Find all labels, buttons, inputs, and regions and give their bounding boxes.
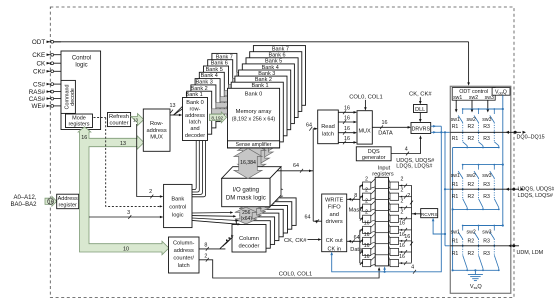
read latch to MUX wires 16x4 bbox=[338, 111, 356, 113]
bank 3 row latch box bbox=[195, 79, 220, 122]
svg-text:row-: row- bbox=[190, 107, 201, 113]
svg-text:16: 16 bbox=[48, 199, 54, 205]
svg-text:sw1: sw1 bbox=[451, 230, 460, 236]
svg-text:RAS#: RAS# bbox=[29, 89, 46, 96]
svg-text:16: 16 bbox=[344, 136, 350, 142]
bank 4 column select arrow bbox=[252, 192, 274, 209]
control logic U1 bbox=[61, 51, 101, 130]
svg-text:13: 13 bbox=[170, 103, 176, 109]
I/O gating DM mask logic bbox=[222, 167, 281, 179]
svg-text:DLL: DLL bbox=[415, 107, 425, 113]
svg-text:16: 16 bbox=[399, 254, 405, 260]
svg-text:R3: R3 bbox=[483, 182, 490, 188]
ODT g1 switch sw1 bbox=[462, 109, 464, 114]
svg-text:10: 10 bbox=[123, 247, 129, 253]
svg-text:counter: counter bbox=[110, 121, 129, 127]
svg-text:64: 64 bbox=[293, 163, 299, 169]
bank 6 column decoder box bbox=[258, 202, 292, 230]
svg-text:2: 2 bbox=[401, 210, 404, 216]
address bus green trunk bbox=[78, 127, 169, 255]
svg-text:16: 16 bbox=[364, 254, 370, 260]
bank control to row latch wires bbox=[192, 141, 196, 190]
bank 2 row address path arrow bbox=[216, 101, 235, 110]
svg-text:4: 4 bbox=[405, 147, 408, 153]
svg-text:and: and bbox=[190, 126, 199, 132]
bank 6 sense amp data arrow bbox=[256, 112, 284, 142]
svg-text:16: 16 bbox=[344, 106, 350, 112]
ODT g2 resistor R3 lower bbox=[493, 190, 495, 199]
wire ck to DLL bbox=[419, 97, 421, 103]
ODT g1 switch sw2 bbox=[478, 109, 480, 114]
svg-text:R1: R1 bbox=[452, 182, 459, 188]
svg-text:R2: R2 bbox=[468, 136, 475, 142]
ODT g1 switch sw3 bbox=[493, 109, 495, 114]
ODT g3 resistor R2 lower bbox=[478, 246, 480, 255]
svg-text:sw1: sw1 bbox=[453, 95, 462, 101]
bank 1 memory array box bbox=[231, 82, 283, 142]
bank 1 column select arrow bbox=[239, 203, 261, 220]
svg-text:16,384: 16,384 bbox=[240, 160, 256, 166]
wire strobe to RCVRS bbox=[433, 219, 445, 234]
wire 64 to read latch bbox=[313, 128, 316, 130]
svg-text:sw3: sw3 bbox=[482, 230, 491, 236]
bank 2 sense amp data arrow bbox=[241, 136, 269, 166]
svg-text:16: 16 bbox=[399, 243, 405, 249]
bank 7 memory array box bbox=[253, 46, 305, 106]
bank 2 column select arrow bbox=[243, 200, 265, 217]
svg-text:2: 2 bbox=[401, 188, 404, 194]
sense amplifier bbox=[228, 141, 280, 148]
DQS generator bbox=[356, 147, 391, 161]
svg-text:LDQS, LDQS#: LDQS, LDQS# bbox=[518, 193, 553, 199]
svg-text:R3: R3 bbox=[483, 239, 490, 245]
blue trunk B bbox=[444, 132, 446, 246]
row address MUX bbox=[143, 109, 170, 151]
wire dashed to bank control bbox=[106, 118, 162, 207]
svg-text:8,192: 8,192 bbox=[211, 116, 223, 121]
svg-text:CK: CK bbox=[36, 60, 46, 67]
svg-text:sw2: sw2 bbox=[469, 95, 478, 101]
svg-text:CAS#: CAS# bbox=[29, 96, 46, 103]
wire to DM pads bbox=[445, 245, 450, 247]
svg-text:MUX: MUX bbox=[358, 129, 371, 135]
write FIFO and drivers bbox=[322, 194, 347, 252]
bank 5 row latch box bbox=[204, 66, 229, 109]
ODT group 2 VssQ rail bbox=[453, 208, 499, 210]
svg-text:CKE: CKE bbox=[32, 52, 45, 59]
svg-text:COL0, COL1: COL0, COL1 bbox=[279, 271, 313, 277]
svg-text:R2: R2 bbox=[468, 194, 475, 200]
drivers DRVRS bbox=[411, 123, 431, 134]
bank 3 column select arrow bbox=[248, 196, 270, 213]
bank 4 memory array box bbox=[242, 64, 294, 124]
ODT control header bbox=[452, 88, 495, 101]
sense amp data path arrow 16384 bbox=[234, 148, 262, 178]
svg-text:R1: R1 bbox=[452, 136, 459, 142]
bank 7 row latch box bbox=[212, 53, 237, 96]
ODT g3 resistor R3 upper bbox=[493, 239, 495, 245]
VssQ ground bbox=[474, 270, 476, 274]
wire ck to write fifo bbox=[308, 239, 321, 241]
ODT g3 switch lower 1 bbox=[463, 255, 468, 268]
svg-text:counter/: counter/ bbox=[173, 255, 194, 261]
read write data trunk 64 bbox=[312, 129, 314, 222]
svg-text:R1: R1 bbox=[452, 124, 459, 130]
svg-text:R3: R3 bbox=[483, 136, 490, 142]
svg-text:R2: R2 bbox=[468, 239, 475, 245]
ODT pad network box bbox=[450, 86, 511, 293]
ODT group 1 VddQ rail bbox=[463, 108, 503, 110]
svg-text:R1: R1 bbox=[452, 194, 459, 200]
svg-text:decoder: decoder bbox=[185, 133, 205, 139]
svg-text:Control: Control bbox=[72, 56, 91, 62]
bank 3 memory array box bbox=[239, 70, 291, 130]
svg-text:CS#: CS# bbox=[33, 81, 46, 88]
ODT g1 switch lower 2 bbox=[479, 142, 484, 146]
mode registers bbox=[66, 114, 93, 128]
svg-text:sw3: sw3 bbox=[482, 117, 491, 123]
DLL bbox=[414, 105, 428, 113]
wire 3 address to bank control bbox=[89, 216, 162, 218]
bank 5 row address path arrow bbox=[229, 83, 247, 92]
svg-text:R3: R3 bbox=[483, 124, 490, 130]
svg-text:address: address bbox=[185, 113, 205, 119]
svg-text:Refresh: Refresh bbox=[109, 114, 129, 120]
svg-text:(8,192 x 256 x 64): (8,192 x 256 x 64) bbox=[232, 117, 276, 123]
VssQ left rail bbox=[452, 148, 454, 271]
svg-text:DM mask logic: DM mask logic bbox=[226, 194, 266, 201]
svg-text:Bank 0: Bank 0 bbox=[245, 91, 262, 97]
svg-text:sw3: sw3 bbox=[485, 95, 494, 101]
svg-text:FIFO: FIFO bbox=[328, 205, 342, 211]
svg-text:address: address bbox=[146, 128, 166, 134]
wire col to mux bbox=[364, 100, 366, 110]
svg-text:decoder: decoder bbox=[239, 244, 260, 250]
svg-text:RCVRS: RCVRS bbox=[421, 212, 438, 218]
svg-text:R3: R3 bbox=[483, 251, 490, 257]
ODT g3 switch lower 3 bbox=[494, 255, 499, 268]
ODT g2 switch lower 3 bbox=[494, 199, 499, 208]
wire DQS 4 to DRVRS bbox=[391, 137, 420, 154]
svg-text:64: 64 bbox=[305, 215, 311, 221]
svg-text:2: 2 bbox=[365, 199, 368, 205]
ODT group 3 VddQ rail bbox=[463, 225, 503, 227]
wire strobe to input registers bbox=[384, 268, 386, 272]
ODT g3 resistor R3 lower bbox=[493, 246, 495, 255]
row mux fan to bank stack bbox=[174, 106, 187, 115]
wire mode registers to bank control (dashed) bbox=[94, 117, 106, 119]
mask trunk 8 bbox=[359, 186, 361, 219]
input reg right cell 3 bbox=[390, 204, 399, 211]
input reg left cell 7 bbox=[363, 248, 371, 255]
bank 0 row address path arrow 8192 bbox=[210, 112, 227, 123]
svg-text:Column: Column bbox=[239, 236, 259, 242]
ODT g3 resistor R1 lower bbox=[462, 246, 464, 255]
wire 64 write fifo to trunk bbox=[313, 220, 322, 222]
ODT g2 switch sw3 bbox=[493, 165, 495, 170]
svg-text:decode: decode bbox=[70, 88, 76, 106]
bank 5 memory array box bbox=[246, 58, 298, 118]
bank control logic bbox=[164, 184, 192, 227]
svg-text:CK in: CK in bbox=[327, 247, 340, 253]
svg-text:LDQS, LDQS#: LDQS, LDQS# bbox=[396, 163, 433, 169]
svg-text:sw1: sw1 bbox=[451, 173, 460, 179]
svg-text:64: 64 bbox=[306, 122, 312, 128]
svg-text:sw1: sw1 bbox=[451, 117, 460, 123]
svg-text:CK#: CK# bbox=[33, 69, 46, 76]
wire 8 to column decoder bbox=[199, 248, 225, 250]
svg-text:and: and bbox=[329, 212, 339, 218]
ODT g3 switch sw2 bbox=[478, 226, 480, 231]
ODT g1 switch lower 3 bbox=[494, 142, 499, 146]
wire 2 address to bank control bbox=[137, 124, 163, 197]
svg-text:Data: Data bbox=[350, 247, 363, 253]
DQS pad line bbox=[450, 188, 519, 190]
svg-text:Read: Read bbox=[321, 124, 335, 130]
svg-text:R1: R1 bbox=[452, 251, 459, 257]
input reg left cell 5 bbox=[363, 226, 371, 233]
wire row mux to bank0 latch 13 bbox=[170, 114, 181, 116]
svg-text:Sense amplifier: Sense amplifier bbox=[236, 142, 272, 148]
input reg left cell 1 bbox=[363, 182, 371, 189]
ODT g1 resistor R2 upper bbox=[478, 123, 480, 132]
wire 64 io gating bbox=[277, 170, 313, 172]
data trunk 64 bbox=[359, 230, 361, 263]
svg-text:UDM, LDM: UDM, LDM bbox=[517, 250, 544, 256]
svg-text:R2: R2 bbox=[468, 124, 475, 130]
wire ODT to ODT control bbox=[54, 41, 469, 43]
ODT g3 resistor R1 upper bbox=[462, 239, 464, 245]
svg-text:16: 16 bbox=[404, 234, 410, 240]
bank 7 sense amp data arrow bbox=[260, 106, 288, 136]
svg-text:13: 13 bbox=[133, 117, 138, 122]
svg-text:Column-: Column- bbox=[173, 241, 195, 247]
svg-text:MUX: MUX bbox=[150, 135, 163, 141]
svg-text:latch: latch bbox=[322, 131, 334, 137]
svg-text:CK, CK#: CK, CK# bbox=[409, 91, 432, 97]
input reg right cell 7 bbox=[390, 248, 399, 255]
svg-text:16: 16 bbox=[364, 243, 370, 249]
svg-text:2: 2 bbox=[149, 189, 152, 195]
svg-text:16: 16 bbox=[364, 221, 370, 227]
svg-text:sw2: sw2 bbox=[467, 173, 476, 179]
bank 5 sense amp data arrow bbox=[253, 118, 281, 148]
svg-text:Address: Address bbox=[58, 196, 78, 202]
svg-text:16: 16 bbox=[399, 221, 405, 227]
svg-text:R3: R3 bbox=[483, 194, 490, 200]
wire DATA 16 bbox=[372, 126, 410, 128]
bank 3 sense amp data arrow bbox=[245, 130, 273, 160]
svg-text:A0–A12,: A0–A12, bbox=[13, 195, 36, 201]
wire DRVRS to pads blue upper bbox=[431, 125, 442, 127]
ODT g3 switch sw3 bbox=[493, 226, 495, 231]
svg-text:R1: R1 bbox=[452, 239, 459, 245]
bank control to column decoder wires bbox=[192, 212, 232, 215]
svg-text:sw2: sw2 bbox=[467, 117, 476, 123]
command decode bbox=[61, 80, 75, 113]
ODT g2 resistor R1 lower bbox=[462, 190, 464, 199]
svg-text:3: 3 bbox=[127, 210, 130, 216]
bank 0 row address latch and decoder bbox=[183, 98, 208, 141]
ODT g3 switch lower 2 bbox=[479, 255, 484, 268]
svg-text:R2: R2 bbox=[468, 182, 475, 188]
svg-text:registers: registers bbox=[372, 171, 394, 177]
bank 1 sense amp data arrow bbox=[238, 142, 266, 172]
bank 3 column decoder box bbox=[245, 213, 279, 241]
bank 4 row address path arrow bbox=[224, 89, 242, 98]
svg-text:latch: latch bbox=[189, 120, 201, 126]
svg-text:DQS: DQS bbox=[368, 149, 380, 155]
svg-text:8: 8 bbox=[204, 243, 207, 249]
ODT g2 switch lower 1 bbox=[463, 199, 468, 208]
input reg left cell 6 bbox=[363, 237, 371, 244]
svg-text:Memory array: Memory array bbox=[236, 109, 272, 115]
svg-text:(x64): (x64) bbox=[241, 216, 253, 222]
bank 7 column decoder box bbox=[262, 198, 296, 226]
ODT g2 resistor R3 upper bbox=[493, 178, 495, 189]
svg-text:8: 8 bbox=[354, 193, 357, 199]
ODT g1 switch lower 1 bbox=[463, 142, 468, 146]
svg-text:2: 2 bbox=[365, 176, 368, 182]
input reg right cell 4 bbox=[390, 215, 399, 222]
ODT group 2 VddQ rail bbox=[463, 164, 503, 166]
bank 6 row address path arrow bbox=[233, 77, 250, 86]
ODT g2 resistor R1 upper bbox=[462, 178, 464, 189]
address register bbox=[57, 194, 79, 209]
svg-text:WRITE: WRITE bbox=[325, 198, 344, 204]
ODT g1 resistor R3 upper bbox=[493, 123, 495, 132]
bank 3 row address path arrow bbox=[220, 95, 239, 104]
svg-text:Mask: Mask bbox=[349, 208, 363, 214]
input reg left cell 2 bbox=[363, 193, 371, 200]
input reg left cell 4 bbox=[363, 215, 371, 222]
VddQ rail bbox=[502, 95, 504, 225]
bank 5 column decoder box bbox=[254, 206, 288, 234]
svg-text:UDQS, UDQS#: UDQS, UDQS# bbox=[518, 187, 554, 193]
input reg right cell 6 bbox=[390, 237, 399, 244]
svg-text:I/O gating: I/O gating bbox=[233, 186, 259, 193]
svg-text:WE#: WE# bbox=[32, 103, 46, 110]
bank 6 memory array box bbox=[250, 52, 302, 112]
ODT group 1 VssQ rail bbox=[453, 147, 499, 149]
svg-text:Bank 0: Bank 0 bbox=[186, 100, 203, 106]
svg-text:16: 16 bbox=[344, 115, 350, 121]
input reg right cell 1 bbox=[390, 182, 399, 189]
wire 2 COL0 COL1 bbox=[199, 260, 379, 278]
bank 0 column decoder bbox=[232, 225, 266, 253]
svg-text:latch: latch bbox=[178, 263, 190, 269]
wire DRVRS to DQ pad blue lower bbox=[431, 131, 451, 133]
bank 1 row latch box bbox=[187, 91, 212, 134]
svg-text:Mode: Mode bbox=[72, 115, 86, 121]
svg-text:logic: logic bbox=[172, 212, 184, 218]
svg-text:drivers: drivers bbox=[326, 219, 343, 225]
svg-text:2: 2 bbox=[204, 254, 207, 260]
ODT control arrows bbox=[455, 100, 457, 111]
column address counter latch bbox=[169, 237, 200, 273]
ODT g1 resistor R2 lower bbox=[478, 133, 480, 142]
bank 2 row latch box bbox=[191, 85, 216, 128]
svg-text:16: 16 bbox=[81, 135, 87, 141]
bank 4 column decoder box bbox=[249, 209, 283, 237]
DQ pad line bbox=[450, 131, 521, 133]
ODT g1 resistor R3 lower bbox=[493, 133, 495, 142]
input reg left cell 8 bbox=[363, 260, 371, 267]
bank 6 column select arrow bbox=[261, 184, 283, 201]
svg-text:2: 2 bbox=[365, 188, 368, 194]
ODT g1 resistor R1 lower bbox=[462, 133, 464, 142]
bank 0 memory array bbox=[228, 88, 280, 148]
svg-text:CK, CK#: CK, CK# bbox=[284, 238, 307, 244]
svg-text:sw2: sw2 bbox=[467, 230, 476, 236]
svg-text:DQ0–DQ15: DQ0–DQ15 bbox=[517, 135, 545, 141]
svg-text:sw3: sw3 bbox=[482, 173, 491, 179]
input reg right cell 2 bbox=[390, 193, 399, 200]
svg-text:COL0, COL1: COL0, COL1 bbox=[349, 94, 383, 100]
bank 7 row address path arrow bbox=[237, 71, 254, 80]
bank 2 memory array box bbox=[235, 76, 287, 136]
svg-text:Bank: Bank bbox=[171, 196, 184, 202]
svg-text:address: address bbox=[174, 248, 194, 254]
address input arrow 16 bbox=[45, 196, 57, 206]
svg-text:CK out: CK out bbox=[326, 238, 343, 244]
svg-text:register: register bbox=[59, 203, 78, 209]
svg-text:2: 2 bbox=[401, 199, 404, 205]
input reg right cell 8 bbox=[390, 260, 399, 267]
rcvrs trunk bbox=[411, 185, 413, 262]
svg-text:logic: logic bbox=[75, 63, 87, 69]
svg-text:Row-: Row- bbox=[150, 121, 163, 127]
input reg left cell 3 bbox=[363, 204, 371, 211]
ODT g3 resistor R2 upper bbox=[478, 239, 480, 245]
svg-text:4: 4 bbox=[411, 264, 414, 270]
svg-text:16: 16 bbox=[344, 126, 350, 132]
ODT g2 switch sw1 bbox=[462, 165, 464, 170]
svg-text:13: 13 bbox=[120, 141, 126, 147]
VddQ label bbox=[492, 88, 510, 96]
svg-text:BA0–BA2: BA0–BA2 bbox=[10, 202, 37, 208]
wire to DQS pads bbox=[445, 188, 450, 190]
bank 2 column decoder box bbox=[241, 217, 275, 245]
svg-text:DATA: DATA bbox=[378, 131, 393, 137]
receivers RCVRS bbox=[421, 209, 438, 218]
ODT g2 resistor R2 upper bbox=[478, 178, 480, 189]
bank 4 row latch box bbox=[199, 72, 224, 115]
refresh counter to row mux arrow bbox=[131, 114, 144, 126]
input reg right cell 5 bbox=[390, 226, 399, 233]
svg-text:registers: registers bbox=[68, 122, 89, 128]
svg-text:generator: generator bbox=[362, 155, 386, 161]
read latch bbox=[318, 110, 339, 144]
svg-text:2: 2 bbox=[401, 176, 404, 182]
ODT g3 switch sw1 bbox=[462, 226, 464, 231]
bank 4 sense amp data arrow bbox=[249, 124, 277, 154]
bank 1 row address path arrow bbox=[212, 107, 232, 116]
blue trunk A bbox=[332, 126, 442, 272]
refresh counter bbox=[108, 113, 131, 127]
column select arrow 256 x64 bbox=[235, 207, 257, 224]
MUX bbox=[357, 111, 372, 144]
svg-text:16: 16 bbox=[382, 120, 388, 126]
svg-text:2: 2 bbox=[407, 193, 410, 199]
ODT group 3 VssQ rail bbox=[453, 269, 499, 271]
ODT g1 resistor R1 upper bbox=[462, 123, 464, 132]
bank 1 column decoder box bbox=[236, 221, 270, 249]
input registers column bbox=[375, 177, 388, 266]
wire DLL to DRVRS bbox=[419, 113, 421, 122]
svg-text:16: 16 bbox=[364, 232, 370, 238]
svg-text:control: control bbox=[169, 204, 186, 210]
